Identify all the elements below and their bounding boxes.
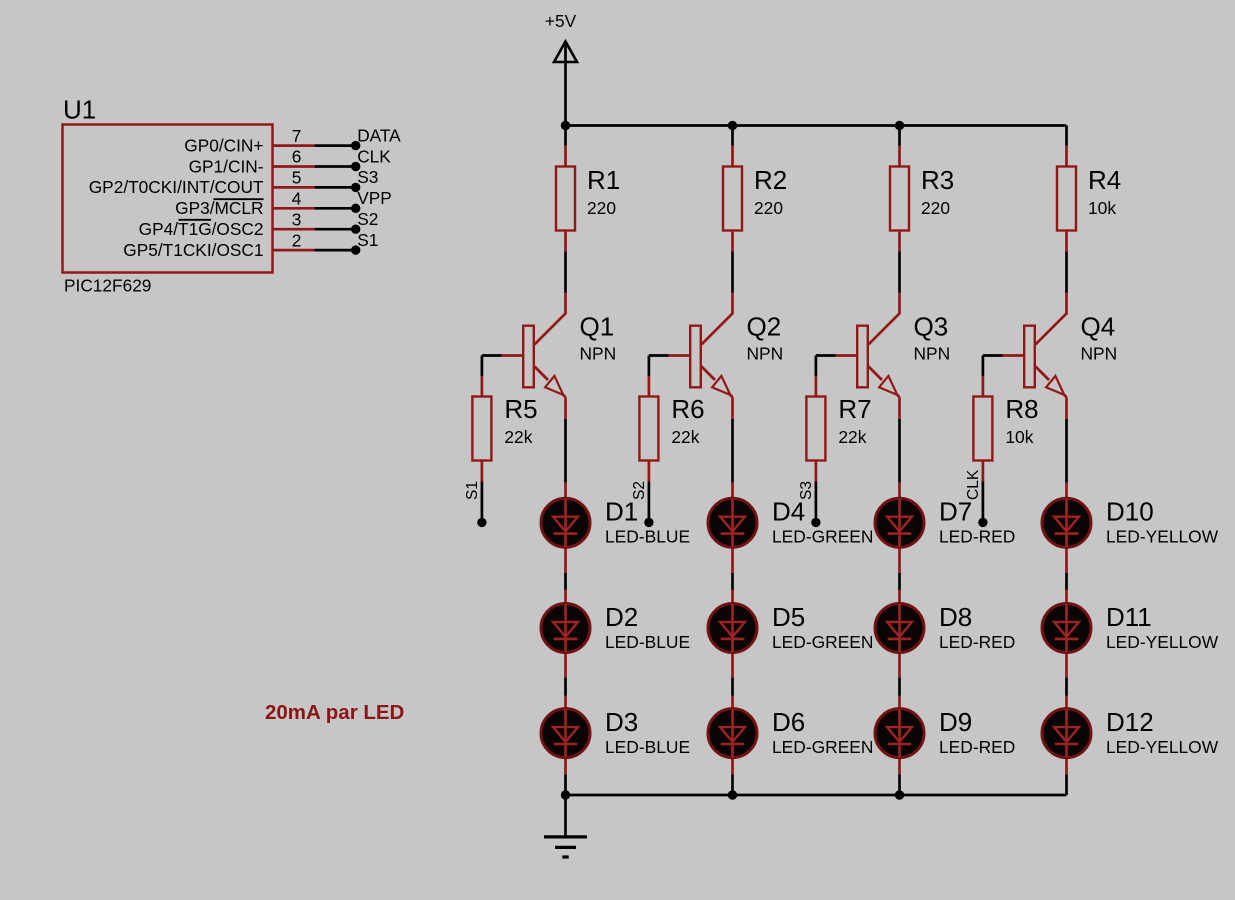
- svg-text:20mA par LED: 20mA par LED: [265, 701, 404, 724]
- svg-text:D5: D5: [772, 602, 805, 632]
- svg-text:U1: U1: [63, 95, 96, 125]
- svg-text:Q1: Q1: [580, 312, 615, 342]
- svg-text:R2: R2: [754, 165, 787, 195]
- svg-text:220: 220: [587, 198, 616, 218]
- svg-text:7: 7: [292, 126, 302, 146]
- svg-text:NPN: NPN: [914, 344, 951, 364]
- svg-text:R8: R8: [1005, 394, 1038, 424]
- svg-text:S3: S3: [798, 481, 815, 500]
- svg-text:R1: R1: [587, 165, 620, 195]
- svg-text:R4: R4: [1088, 165, 1121, 195]
- svg-text:LED-BLUE: LED-BLUE: [605, 527, 690, 547]
- svg-text:4: 4: [292, 189, 302, 209]
- svg-text:GP5/T1CKI/OSC1: GP5/T1CKI/OSC1: [123, 240, 263, 260]
- svg-text:LED-YELLOW: LED-YELLOW: [1106, 737, 1219, 757]
- svg-text:CLK: CLK: [357, 146, 391, 166]
- svg-text:6: 6: [292, 147, 302, 167]
- svg-text:LED-GREEN: LED-GREEN: [772, 737, 873, 757]
- svg-text:D3: D3: [605, 707, 638, 737]
- svg-text:220: 220: [754, 198, 783, 218]
- svg-text:R7: R7: [838, 394, 871, 424]
- svg-text:220: 220: [921, 198, 950, 218]
- svg-text:D10: D10: [1106, 497, 1154, 527]
- svg-text:D7: D7: [939, 497, 972, 527]
- svg-text:NPN: NPN: [747, 344, 784, 364]
- svg-text:R3: R3: [921, 165, 954, 195]
- svg-text:S3: S3: [357, 167, 378, 187]
- svg-text:VPP: VPP: [357, 188, 392, 208]
- svg-text:2: 2: [292, 230, 302, 250]
- svg-text:GP1/CIN-: GP1/CIN-: [189, 156, 264, 176]
- svg-text:D8: D8: [939, 602, 972, 632]
- svg-text:D4: D4: [772, 497, 805, 527]
- svg-text:NPN: NPN: [1081, 344, 1118, 364]
- svg-text:3: 3: [292, 209, 302, 229]
- svg-text:S2: S2: [357, 209, 378, 229]
- svg-text:D9: D9: [939, 707, 972, 737]
- svg-text:S1: S1: [464, 481, 481, 500]
- svg-text:S1: S1: [357, 230, 378, 250]
- svg-text:D6: D6: [772, 707, 805, 737]
- svg-text:R5: R5: [504, 394, 537, 424]
- svg-text:PIC12F629: PIC12F629: [64, 276, 151, 296]
- svg-text:D11: D11: [1106, 602, 1152, 632]
- svg-text:22k: 22k: [504, 427, 532, 447]
- svg-text:+5V: +5V: [545, 11, 577, 31]
- svg-text:DATA: DATA: [357, 125, 401, 145]
- svg-text:10k: 10k: [1005, 427, 1033, 447]
- svg-text:GP4/T1G/OSC2: GP4/T1G/OSC2: [139, 219, 264, 239]
- svg-text:Q2: Q2: [747, 312, 782, 342]
- svg-text:S2: S2: [631, 481, 648, 500]
- svg-text:R6: R6: [671, 394, 704, 424]
- svg-text:LED-YELLOW: LED-YELLOW: [1106, 632, 1219, 652]
- svg-text:LED-RED: LED-RED: [939, 632, 1015, 652]
- svg-text:Q4: Q4: [1081, 312, 1116, 342]
- svg-text:LED-YELLOW: LED-YELLOW: [1106, 527, 1219, 547]
- svg-text:LED-GREEN: LED-GREEN: [772, 527, 873, 547]
- svg-text:22k: 22k: [838, 427, 866, 447]
- svg-text:Q3: Q3: [914, 312, 949, 342]
- svg-text:GP0/CIN+: GP0/CIN+: [184, 135, 263, 155]
- svg-text:LED-BLUE: LED-BLUE: [605, 632, 690, 652]
- svg-text:LED-GREEN: LED-GREEN: [772, 632, 873, 652]
- svg-text:CLK: CLK: [965, 469, 982, 500]
- svg-text:D12: D12: [1106, 707, 1154, 737]
- svg-text:5: 5: [292, 168, 302, 188]
- svg-text:GP3/MCLR: GP3/MCLR: [175, 198, 263, 218]
- svg-text:22k: 22k: [671, 427, 699, 447]
- svg-text:LED-RED: LED-RED: [939, 527, 1015, 547]
- svg-text:GP2/T0CKI/INT/COUT: GP2/T0CKI/INT/COUT: [89, 177, 264, 197]
- svg-text:LED-RED: LED-RED: [939, 737, 1015, 757]
- svg-text:NPN: NPN: [580, 344, 617, 364]
- svg-text:D1: D1: [605, 497, 638, 527]
- svg-text:LED-BLUE: LED-BLUE: [605, 737, 690, 757]
- svg-text:10k: 10k: [1088, 198, 1116, 218]
- svg-text:D2: D2: [605, 602, 638, 632]
